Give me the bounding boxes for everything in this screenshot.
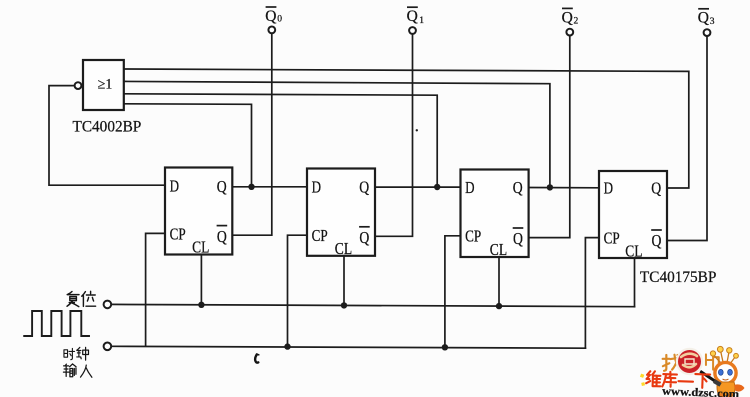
svg-text:CP: CP (604, 228, 620, 247)
svg-text:D: D (465, 178, 474, 197)
svg-text:Q: Q (407, 8, 419, 25)
svg-text:≥1: ≥1 (98, 77, 113, 93)
svg-text:Q: Q (359, 228, 369, 247)
svg-text:Q: Q (651, 179, 661, 198)
svg-text:CL: CL (490, 240, 507, 259)
svg-text:Q: Q (359, 178, 369, 197)
svg-text:Q: Q (513, 229, 523, 248)
svg-text:Q: Q (698, 10, 710, 27)
svg-text:Q: Q (265, 8, 277, 25)
svg-text:2: 2 (574, 17, 579, 27)
svg-text:TC4002BP: TC4002BP (73, 118, 142, 135)
svg-text:3: 3 (710, 17, 715, 27)
svg-text:CL: CL (335, 239, 352, 258)
svg-text:CL: CL (625, 242, 642, 261)
svg-text:D: D (604, 179, 613, 198)
svg-text:Q: Q (513, 178, 523, 197)
svg-text:D: D (170, 177, 179, 196)
svg-text:Q: Q (217, 177, 227, 196)
svg-text:1: 1 (419, 16, 424, 26)
svg-text:CP: CP (465, 227, 481, 246)
svg-text:Q: Q (652, 231, 662, 250)
svg-text:CP: CP (170, 224, 186, 243)
svg-text:Q: Q (217, 227, 227, 246)
svg-text:CL: CL (192, 238, 209, 257)
svg-text:Q: Q (562, 9, 574, 26)
svg-text:CP: CP (312, 226, 328, 245)
svg-text:0: 0 (277, 14, 282, 24)
svg-text:TC40175BP: TC40175BP (640, 269, 717, 286)
svg-text:D: D (312, 177, 321, 196)
